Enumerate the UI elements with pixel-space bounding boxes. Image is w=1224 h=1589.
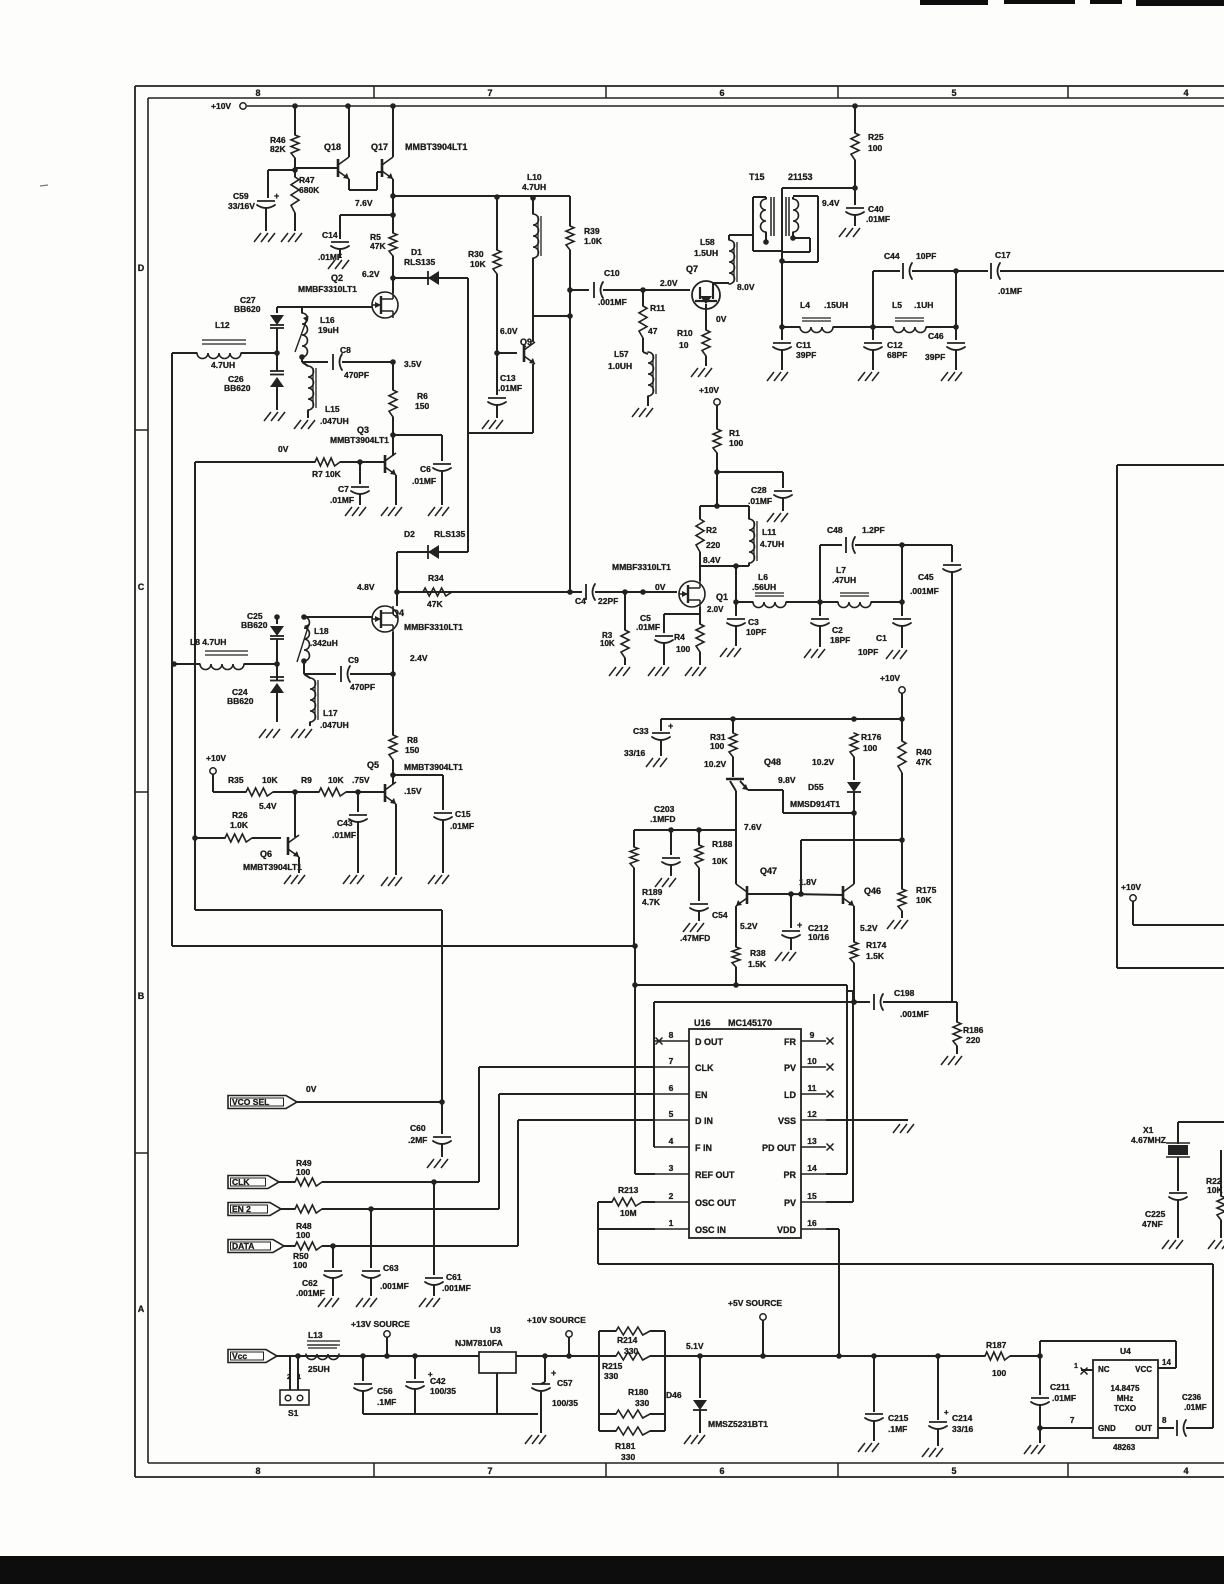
svg-text:100: 100 <box>293 1260 307 1270</box>
svg-text:5.2V: 5.2V <box>740 921 758 931</box>
svg-text:Q17: Q17 <box>371 142 388 152</box>
svg-text:EN 2: EN 2 <box>232 1204 251 1214</box>
svg-text:PV: PV <box>784 1198 796 1208</box>
svg-text:10/16: 10/16 <box>808 932 830 942</box>
svg-text:.01MF: .01MF <box>1052 1393 1076 1403</box>
svg-text:.001MF: .001MF <box>900 1009 929 1019</box>
svg-text:1.0K: 1.0K <box>584 236 603 246</box>
svg-text:Q3: Q3 <box>357 425 369 435</box>
svg-text:4.7K: 4.7K <box>642 897 661 907</box>
svg-text:8: 8 <box>669 1030 674 1040</box>
svg-text:R8: R8 <box>407 735 418 745</box>
svg-text:.342uH: .342uH <box>310 638 338 648</box>
svg-text:BB620: BB620 <box>227 696 254 706</box>
svg-text:L17: L17 <box>323 708 338 718</box>
svg-text:+: + <box>274 191 279 201</box>
svg-text:X1: X1 <box>1143 1125 1154 1135</box>
svg-text:S1: S1 <box>288 1408 299 1418</box>
svg-text:.01MF: .01MF <box>332 830 356 840</box>
svg-text:47NF: 47NF <box>1142 1219 1163 1229</box>
svg-text:R215: R215 <box>602 1361 623 1371</box>
svg-text:1.5K: 1.5K <box>748 959 767 969</box>
svg-text:2: 2 <box>669 1191 674 1201</box>
svg-text:.01MF: .01MF <box>412 476 436 486</box>
svg-text:D2: D2 <box>404 529 415 539</box>
svg-text:+: + <box>668 721 673 731</box>
svg-text:DATA: DATA <box>232 1241 254 1251</box>
svg-text:+10V: +10V <box>1121 882 1141 892</box>
svg-text:100: 100 <box>992 1368 1006 1378</box>
svg-text:D46: D46 <box>666 1390 682 1400</box>
svg-text:L7: L7 <box>836 565 846 575</box>
svg-text:C7: C7 <box>338 484 349 494</box>
svg-text:330: 330 <box>604 1371 618 1381</box>
svg-text:.01MF: .01MF <box>450 821 474 831</box>
svg-text:Q5: Q5 <box>367 760 379 770</box>
svg-text:.56UH: .56UH <box>752 582 776 592</box>
svg-text:D: D <box>138 263 145 273</box>
svg-text:C15: C15 <box>455 809 471 819</box>
svg-text:L57: L57 <box>614 349 629 359</box>
svg-text:2.0V: 2.0V <box>707 605 724 614</box>
svg-text:U3: U3 <box>490 1325 501 1335</box>
svg-text:R40: R40 <box>916 747 932 757</box>
svg-text:L12: L12 <box>215 320 230 330</box>
svg-text:+10V: +10V <box>211 101 231 111</box>
svg-text:11: 11 <box>808 1083 817 1093</box>
svg-text:R214: R214 <box>617 1335 638 1345</box>
svg-text:10K: 10K <box>262 775 278 785</box>
svg-text:0V: 0V <box>716 314 727 324</box>
svg-text:C33: C33 <box>633 726 649 736</box>
svg-text:10K: 10K <box>712 856 728 866</box>
svg-text:R34: R34 <box>428 573 444 583</box>
svg-text:MMBF3310LT1: MMBF3310LT1 <box>404 622 463 632</box>
svg-text:OUT: OUT <box>1135 1424 1152 1433</box>
svg-text:C215: C215 <box>888 1413 909 1423</box>
svg-text:100/35: 100/35 <box>552 1398 578 1408</box>
svg-text:6: 6 <box>719 88 724 98</box>
svg-text:C12: C12 <box>887 340 903 350</box>
svg-text:+: + <box>944 1408 949 1417</box>
svg-text:25UH: 25UH <box>308 1364 330 1374</box>
svg-text:5.4V: 5.4V <box>259 801 277 811</box>
svg-text:10M: 10M <box>620 1208 637 1218</box>
svg-text:220: 220 <box>706 540 720 550</box>
svg-text:47: 47 <box>648 326 658 336</box>
svg-text:.047UH: .047UH <box>320 720 349 730</box>
svg-text:MC145170: MC145170 <box>728 1018 772 1028</box>
svg-text:1.0K: 1.0K <box>230 820 249 830</box>
svg-text:L13: L13 <box>308 1330 323 1340</box>
svg-text:7.6V: 7.6V <box>355 198 373 208</box>
svg-text:7: 7 <box>487 1466 492 1476</box>
svg-text:R2: R2 <box>706 525 717 535</box>
svg-text:330: 330 <box>621 1452 635 1462</box>
svg-text:MMBF3310LT1: MMBF3310LT1 <box>298 284 357 294</box>
svg-text:R35: R35 <box>228 775 244 785</box>
svg-text:R47: R47 <box>299 175 315 185</box>
svg-text:.15UH: .15UH <box>824 300 848 310</box>
svg-text:6.0V: 6.0V <box>500 326 518 336</box>
svg-text:NJM7810FA: NJM7810FA <box>455 1338 503 1348</box>
svg-text:MMSZ5231BT1: MMSZ5231BT1 <box>708 1419 768 1429</box>
svg-text:1.2PF: 1.2PF <box>862 525 885 535</box>
svg-text:47K: 47K <box>427 599 443 609</box>
svg-text:C43: C43 <box>337 818 353 828</box>
svg-text:C17: C17 <box>995 250 1011 260</box>
svg-text:R175: R175 <box>916 885 937 895</box>
svg-text:12: 12 <box>807 1109 817 1119</box>
svg-text:+10V: +10V <box>206 753 226 763</box>
svg-text:D1: D1 <box>411 247 422 257</box>
svg-text:1: 1 <box>669 1218 674 1228</box>
svg-text:D IN: D IN <box>695 1116 713 1126</box>
svg-text:.001MF: .001MF <box>910 586 939 596</box>
svg-text:C236: C236 <box>1182 1393 1202 1402</box>
svg-text:R10: R10 <box>677 328 693 338</box>
svg-text:C13: C13 <box>500 373 516 383</box>
svg-text:39PF: 39PF <box>925 352 945 362</box>
svg-text:+5V SOURCE: +5V SOURCE <box>728 1298 782 1308</box>
svg-text:220: 220 <box>966 1035 980 1045</box>
svg-text:R4: R4 <box>674 632 685 642</box>
svg-text:9.4V: 9.4V <box>822 198 840 208</box>
svg-text:100: 100 <box>296 1230 310 1240</box>
svg-text:C28: C28 <box>751 485 767 495</box>
svg-text:14: 14 <box>807 1163 817 1173</box>
svg-text:3: 3 <box>669 1163 674 1173</box>
svg-text:.01MF: .01MF <box>866 214 890 224</box>
svg-text:Q48: Q48 <box>764 757 781 767</box>
svg-text:MMSD914T1: MMSD914T1 <box>790 799 840 809</box>
svg-text:R187: R187 <box>986 1340 1007 1350</box>
svg-text:RLS135: RLS135 <box>434 529 465 539</box>
svg-text:L6: L6 <box>758 572 768 582</box>
svg-text:R213: R213 <box>618 1185 639 1195</box>
svg-text:D55: D55 <box>808 782 824 792</box>
svg-text:U16: U16 <box>694 1018 711 1028</box>
svg-text:7: 7 <box>669 1056 674 1066</box>
svg-text:MMBT3904LT1: MMBT3904LT1 <box>243 862 302 872</box>
svg-text:1.5K: 1.5K <box>866 951 885 961</box>
svg-text:33/16: 33/16 <box>952 1424 974 1434</box>
svg-text:MMBT3904LT1: MMBT3904LT1 <box>405 142 467 152</box>
svg-text:13: 13 <box>807 1136 817 1146</box>
svg-text:C59: C59 <box>233 191 249 201</box>
svg-text:VDD: VDD <box>777 1225 797 1235</box>
svg-text:C2: C2 <box>832 625 843 635</box>
svg-text:FR: FR <box>784 1037 796 1047</box>
svg-text:7: 7 <box>1070 1416 1075 1425</box>
svg-text:OSC IN: OSC IN <box>695 1225 726 1235</box>
svg-text:VCC: VCC <box>1135 1365 1152 1374</box>
svg-text:7: 7 <box>487 88 492 98</box>
svg-text:BB620: BB620 <box>224 383 251 393</box>
svg-text:OSC OUT: OSC OUT <box>695 1198 737 1208</box>
svg-text:10K: 10K <box>600 639 615 648</box>
svg-text:5.1V: 5.1V <box>686 1341 704 1351</box>
svg-text:R30: R30 <box>468 249 484 259</box>
svg-text:C: C <box>138 582 145 592</box>
svg-text:10: 10 <box>679 340 689 350</box>
svg-text:68PF: 68PF <box>887 350 907 360</box>
svg-text:NC: NC <box>1098 1365 1110 1374</box>
svg-text:4.7UH: 4.7UH <box>760 539 784 549</box>
svg-text:10.2V: 10.2V <box>704 759 727 769</box>
svg-text:L8 4.7UH: L8 4.7UH <box>190 637 226 647</box>
svg-text:.47MFD: .47MFD <box>680 933 710 943</box>
svg-text:.2MF: .2MF <box>408 1135 427 1145</box>
svg-text:L18: L18 <box>314 626 329 636</box>
svg-text:0V: 0V <box>278 444 289 454</box>
svg-text:CLK: CLK <box>695 1063 714 1073</box>
svg-text:F IN: F IN <box>695 1143 712 1153</box>
svg-text:150: 150 <box>415 401 429 411</box>
svg-text:4: 4 <box>669 1136 674 1146</box>
svg-text:C211: C211 <box>1050 1382 1070 1392</box>
svg-text:1: 1 <box>1074 1363 1078 1370</box>
svg-text:100: 100 <box>868 143 882 153</box>
svg-text:.01MF: .01MF <box>636 622 660 632</box>
svg-text:82K: 82K <box>270 144 286 154</box>
svg-text:6: 6 <box>719 1466 724 1476</box>
svg-text:R186: R186 <box>963 1025 984 1035</box>
svg-text:C63: C63 <box>383 1263 399 1273</box>
svg-text:2: 2 <box>287 1372 291 1381</box>
svg-text:Q46: Q46 <box>864 886 881 896</box>
svg-text:+10V: +10V <box>880 673 900 683</box>
svg-text:Q47: Q47 <box>760 866 777 876</box>
svg-text:C54: C54 <box>712 910 728 920</box>
svg-text:5: 5 <box>951 1466 956 1476</box>
svg-text:.001MF: .001MF <box>296 1288 325 1298</box>
svg-text:10: 10 <box>807 1056 817 1066</box>
svg-text:C14: C14 <box>322 230 338 240</box>
svg-text:MHz: MHz <box>1117 1394 1133 1403</box>
svg-text:5: 5 <box>669 1109 674 1119</box>
svg-text:3.5V: 3.5V <box>404 359 422 369</box>
svg-text:L10: L10 <box>527 172 542 182</box>
svg-text:C6: C6 <box>420 464 431 474</box>
svg-text:470PF: 470PF <box>344 370 369 380</box>
svg-text:L58: L58 <box>700 237 715 247</box>
svg-text:MMBF3310LT1: MMBF3310LT1 <box>612 562 671 572</box>
svg-text:C61: C61 <box>446 1272 462 1282</box>
svg-text:100/35: 100/35 <box>430 1386 456 1396</box>
svg-text:EN: EN <box>695 1090 708 1100</box>
svg-text:47K: 47K <box>370 241 386 251</box>
svg-text:5.2V: 5.2V <box>860 923 878 933</box>
svg-text:C60: C60 <box>410 1123 426 1133</box>
svg-text:4: 4 <box>1183 88 1188 98</box>
svg-text:1.5UH: 1.5UH <box>694 248 718 258</box>
svg-text:2.0V: 2.0V <box>660 278 678 288</box>
svg-text:.01MF: .01MF <box>748 496 772 506</box>
svg-text:Q7: Q7 <box>686 264 698 274</box>
svg-text:48263: 48263 <box>1113 1443 1136 1452</box>
svg-text:C4: C4 <box>575 596 586 606</box>
svg-text:5: 5 <box>951 88 956 98</box>
svg-text:L16: L16 <box>320 315 335 325</box>
svg-text:C214: C214 <box>952 1413 973 1423</box>
svg-text:B: B <box>138 991 145 1001</box>
svg-text:Q6: Q6 <box>260 849 272 859</box>
svg-text:.1MF: .1MF <box>888 1424 907 1434</box>
svg-text:CLK: CLK <box>232 1177 250 1187</box>
svg-text:.01MF: .01MF <box>998 286 1022 296</box>
svg-text:.1MF: .1MF <box>377 1397 396 1407</box>
svg-text:8.0V: 8.0V <box>737 282 755 292</box>
svg-text:T15: T15 <box>749 172 765 182</box>
svg-text:4.67MHZ: 4.67MHZ <box>1131 1135 1166 1145</box>
svg-text:1: 1 <box>297 1372 301 1381</box>
svg-text:18PF: 18PF <box>830 635 850 645</box>
svg-text:R25: R25 <box>868 132 884 142</box>
svg-text:+10V: +10V <box>699 385 719 395</box>
svg-text:0V: 0V <box>306 1084 317 1094</box>
svg-text:MMBT3904LT1: MMBT3904LT1 <box>404 762 463 772</box>
svg-text:RLS135: RLS135 <box>404 257 435 267</box>
svg-text:R39: R39 <box>584 226 600 236</box>
svg-text:C46: C46 <box>928 331 944 341</box>
svg-text:PD OUT: PD OUT <box>762 1143 797 1153</box>
svg-text:C56: C56 <box>377 1386 393 1396</box>
svg-text:MMBT3904LT1: MMBT3904LT1 <box>330 435 389 445</box>
svg-text:4.8V: 4.8V <box>357 582 375 592</box>
svg-text:VCO SEL: VCO SEL <box>232 1097 269 1107</box>
svg-text:GND: GND <box>1098 1424 1116 1433</box>
svg-text:6.2V: 6.2V <box>362 269 380 279</box>
svg-text:21153: 21153 <box>788 172 813 182</box>
svg-text:Vcc: Vcc <box>232 1351 247 1361</box>
svg-text:14.8475: 14.8475 <box>1111 1384 1140 1393</box>
svg-text:C1: C1 <box>876 633 887 643</box>
svg-text:.01MF: .01MF <box>330 495 354 505</box>
svg-text:R9: R9 <box>301 775 312 785</box>
svg-text:R176: R176 <box>861 732 882 742</box>
svg-text:C42: C42 <box>430 1376 446 1386</box>
svg-text:C62: C62 <box>302 1278 318 1288</box>
svg-text:33/16V: 33/16V <box>228 201 255 211</box>
svg-text:4.7UH: 4.7UH <box>211 360 235 370</box>
svg-text:2.4V: 2.4V <box>410 653 428 663</box>
svg-text:C57: C57 <box>557 1378 573 1388</box>
svg-text:8.4V: 8.4V <box>703 555 721 565</box>
svg-text:A: A <box>138 1304 145 1314</box>
svg-text:19uH: 19uH <box>318 325 339 335</box>
svg-text:.01MF: .01MF <box>498 383 522 393</box>
svg-text:.75V: .75V <box>352 775 370 785</box>
svg-text:Q18: Q18 <box>324 142 341 152</box>
svg-text:470PF: 470PF <box>350 682 375 692</box>
svg-text:10PF: 10PF <box>858 647 878 657</box>
svg-text:100: 100 <box>710 741 724 751</box>
svg-text:10PF: 10PF <box>916 251 936 261</box>
svg-text:330: 330 <box>635 1398 649 1408</box>
svg-text:C11: C11 <box>796 340 811 350</box>
svg-text:8: 8 <box>255 88 260 98</box>
svg-text:PV: PV <box>784 1063 796 1073</box>
svg-text:VSS: VSS <box>778 1116 796 1126</box>
svg-text:.047UH: .047UH <box>320 416 349 426</box>
svg-text:7.6V: 7.6V <box>744 822 762 832</box>
svg-text:150: 150 <box>405 745 419 755</box>
svg-text:4.7UH: 4.7UH <box>522 182 546 192</box>
svg-text:10PF: 10PF <box>746 627 766 637</box>
svg-text:L4: L4 <box>800 300 810 310</box>
svg-text:100: 100 <box>729 438 743 448</box>
svg-text:R1: R1 <box>729 428 740 438</box>
svg-text:33/16: 33/16 <box>624 748 646 758</box>
svg-text:.01MF: .01MF <box>1184 1403 1207 1412</box>
svg-text:BB620: BB620 <box>234 304 261 314</box>
svg-text:15: 15 <box>807 1191 817 1201</box>
svg-text:.15V: .15V <box>404 786 422 796</box>
svg-text:TCXO: TCXO <box>1114 1404 1136 1413</box>
svg-text:.001MF: .001MF <box>380 1281 409 1291</box>
svg-text:R189: R189 <box>642 887 663 897</box>
svg-text:C3: C3 <box>748 617 759 627</box>
svg-text:10K: 10K <box>916 895 932 905</box>
svg-text:L15: L15 <box>325 404 340 414</box>
svg-text:680K: 680K <box>299 185 320 195</box>
svg-text:C40: C40 <box>868 204 884 214</box>
svg-text:LD: LD <box>784 1090 796 1100</box>
svg-text:+: + <box>797 920 802 930</box>
svg-text:R181: R181 <box>615 1441 636 1451</box>
svg-text:16: 16 <box>807 1218 817 1228</box>
svg-text:C48: C48 <box>827 525 843 535</box>
svg-text:39PF: 39PF <box>796 350 816 360</box>
svg-text:C45: C45 <box>918 572 934 582</box>
svg-text:100: 100 <box>676 644 690 654</box>
svg-text:C44: C44 <box>884 251 900 261</box>
svg-text:47K: 47K <box>916 757 932 767</box>
svg-text:R26: R26 <box>232 810 248 820</box>
svg-text:10K: 10K <box>470 259 486 269</box>
svg-text:C203: C203 <box>654 804 675 814</box>
svg-text:+13V SOURCE: +13V SOURCE <box>351 1319 410 1329</box>
svg-text:L11: L11 <box>762 527 776 537</box>
svg-text:BB620: BB620 <box>241 620 268 630</box>
svg-text:9.8V: 9.8V <box>778 775 796 785</box>
svg-text:L5: L5 <box>892 300 902 310</box>
svg-text:.01MF: .01MF <box>318 252 342 262</box>
svg-text:10K: 10K <box>328 775 344 785</box>
svg-text:100: 100 <box>863 743 877 753</box>
svg-text:R11: R11 <box>650 303 665 313</box>
svg-text:.1MFD: .1MFD <box>650 814 676 824</box>
svg-text:100: 100 <box>296 1167 310 1177</box>
svg-text:C198: C198 <box>894 988 915 998</box>
svg-text:+10V SOURCE: +10V SOURCE <box>527 1315 586 1325</box>
svg-text:D OUT: D OUT <box>695 1037 724 1047</box>
svg-text:+: + <box>551 1368 556 1378</box>
svg-text:9: 9 <box>810 1030 815 1040</box>
svg-text:22PF: 22PF <box>598 596 618 606</box>
svg-text:C9: C9 <box>348 655 359 665</box>
svg-text:.1UH: .1UH <box>914 300 933 310</box>
svg-text:REF OUT: REF OUT <box>695 1170 735 1180</box>
svg-text:R7 10K: R7 10K <box>312 469 342 479</box>
svg-text:R6: R6 <box>417 391 428 401</box>
svg-text:14: 14 <box>1162 1358 1171 1367</box>
svg-text:.001MF: .001MF <box>442 1283 471 1293</box>
svg-text:.47UH: .47UH <box>832 575 856 585</box>
svg-text:R38: R38 <box>750 948 766 958</box>
svg-text:R174: R174 <box>866 940 887 950</box>
